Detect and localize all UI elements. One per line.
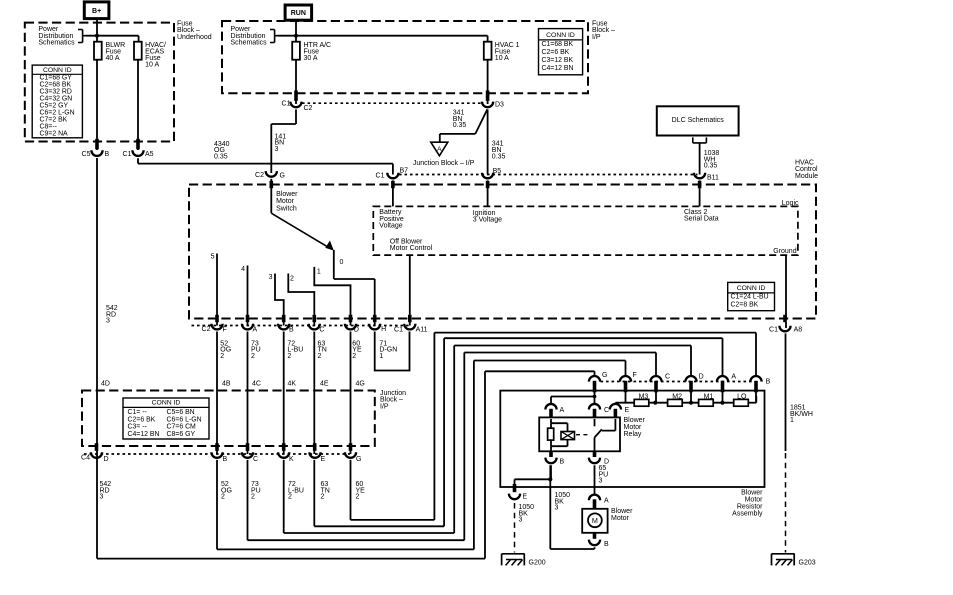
- svg-text:LO: LO: [737, 393, 747, 400]
- svg-text:A: A: [604, 498, 609, 505]
- svg-text:C2=6 BK: C2=6 BK: [542, 49, 570, 56]
- svg-text:D: D: [699, 373, 704, 380]
- svg-text:2: 2: [221, 494, 225, 501]
- svg-text:A: A: [437, 146, 442, 153]
- svg-text:C4: C4: [81, 455, 90, 462]
- svg-text:M2: M2: [672, 393, 682, 400]
- svg-text:3: 3: [100, 494, 104, 501]
- svg-text:G200: G200: [529, 559, 546, 566]
- svg-text:0.35: 0.35: [492, 153, 506, 160]
- svg-text:D3: D3: [495, 101, 504, 108]
- svg-text:A: A: [560, 407, 565, 414]
- svg-text:Ground: Ground: [773, 248, 796, 255]
- svg-text:C: C: [319, 327, 324, 334]
- svg-text:C2=68 BK: C2=68 BK: [40, 82, 72, 89]
- svg-text:0.35: 0.35: [704, 163, 718, 170]
- svg-text:2: 2: [318, 353, 322, 360]
- svg-text:A11: A11: [416, 326, 428, 333]
- svg-text:Junction Block – I/P: Junction Block – I/P: [413, 160, 475, 167]
- svg-text:Motor: Motor: [276, 198, 295, 205]
- svg-text:0.35: 0.35: [214, 153, 228, 160]
- svg-text:C1: C1: [282, 101, 291, 108]
- svg-text:4G: 4G: [356, 381, 365, 388]
- svg-text:3: 3: [106, 318, 110, 325]
- svg-text:C8=--: C8=--: [40, 124, 57, 131]
- svg-text:C1= --: C1= --: [128, 409, 147, 416]
- svg-text:C2: C2: [304, 105, 313, 112]
- svg-text:Blower: Blower: [611, 508, 633, 515]
- svg-text:C: C: [604, 407, 609, 414]
- svg-text:C3= --: C3= --: [128, 424, 147, 431]
- svg-text:Motor: Motor: [611, 515, 630, 522]
- svg-text:A8: A8: [794, 326, 803, 333]
- svg-text:0.35: 0.35: [453, 122, 467, 129]
- svg-text:1: 1: [790, 417, 794, 424]
- svg-text:Switch: Switch: [276, 206, 297, 213]
- svg-text:4C: 4C: [252, 381, 261, 388]
- svg-text:C1=68 GY: C1=68 GY: [40, 75, 73, 82]
- svg-text:K: K: [289, 456, 294, 463]
- svg-text:E: E: [523, 494, 528, 501]
- svg-text:A: A: [253, 327, 258, 334]
- svg-text:B: B: [766, 379, 771, 386]
- svg-text:G: G: [602, 372, 607, 379]
- svg-text:E: E: [625, 407, 630, 414]
- svg-text:D: D: [104, 456, 109, 463]
- svg-text:4K: 4K: [288, 381, 297, 388]
- svg-text:C: C: [253, 456, 258, 463]
- svg-text:B11: B11: [707, 175, 719, 182]
- svg-text:C5: C5: [82, 151, 91, 158]
- svg-text:C2=8 BK: C2=8 BK: [731, 301, 759, 308]
- svg-text:Relay: Relay: [624, 431, 642, 438]
- svg-text:G: G: [280, 173, 285, 180]
- svg-text:C1=24 L-BU: C1=24 L-BU: [731, 294, 769, 301]
- svg-text:2: 2: [251, 494, 255, 501]
- svg-text:M1: M1: [704, 393, 714, 400]
- svg-text:30 A: 30 A: [304, 55, 318, 62]
- svg-text:1: 1: [317, 268, 321, 275]
- svg-text:B5: B5: [493, 168, 502, 175]
- svg-text:Module: Module: [795, 173, 818, 180]
- svg-text:0: 0: [340, 259, 344, 266]
- svg-text:B: B: [560, 459, 565, 466]
- svg-text:3: 3: [599, 478, 603, 485]
- svg-text:Blower: Blower: [741, 490, 763, 497]
- svg-text:C6=6 L-GN: C6=6 L-GN: [167, 416, 202, 423]
- svg-text:3: 3: [269, 274, 273, 281]
- svg-text:Schematics: Schematics: [38, 39, 75, 46]
- svg-text:C6=2 L-GN: C6=2 L-GN: [40, 110, 75, 117]
- svg-text:10 A: 10 A: [145, 62, 159, 69]
- svg-text:Logic: Logic: [782, 200, 799, 207]
- svg-text:C1: C1: [123, 151, 132, 158]
- svg-text:A: A: [731, 373, 736, 380]
- svg-text:CONN ID: CONN ID: [737, 285, 766, 292]
- svg-text:Schematics: Schematics: [231, 39, 268, 46]
- svg-text:C4=32 GN: C4=32 GN: [40, 96, 73, 103]
- svg-text:10 A: 10 A: [495, 55, 509, 62]
- svg-text:RUN: RUN: [291, 10, 306, 17]
- svg-text:C8=6 GY: C8=6 GY: [167, 431, 196, 438]
- svg-text:B: B: [604, 541, 609, 548]
- svg-text:Motor: Motor: [624, 424, 643, 431]
- svg-text:B: B: [289, 327, 294, 334]
- svg-text:M3: M3: [639, 393, 649, 400]
- svg-text:A5: A5: [145, 151, 154, 158]
- svg-text:C5=2 GY: C5=2 GY: [40, 103, 69, 110]
- svg-text:C7=2 BK: C7=2 BK: [40, 117, 68, 124]
- svg-text:C5=6 BN: C5=6 BN: [167, 409, 195, 416]
- svg-text:Blower: Blower: [276, 191, 298, 198]
- svg-text:I/P: I/P: [592, 34, 601, 41]
- svg-text:E: E: [321, 456, 326, 463]
- svg-text:I/P: I/P: [380, 403, 389, 410]
- svg-text:C: C: [665, 373, 670, 380]
- svg-text:C3=12 BK: C3=12 BK: [542, 57, 574, 64]
- svg-text:C2=6 BK: C2=6 BK: [128, 416, 156, 423]
- svg-text:C9=2 NA: C9=2 NA: [40, 131, 69, 138]
- svg-text:G203: G203: [799, 559, 816, 566]
- svg-text:5: 5: [211, 254, 215, 261]
- svg-text:Underhood: Underhood: [177, 34, 212, 41]
- svg-text:C1: C1: [769, 326, 778, 333]
- svg-text:CONN ID: CONN ID: [43, 67, 72, 74]
- svg-text:2: 2: [356, 494, 360, 501]
- svg-text:Assembly: Assembly: [732, 511, 763, 518]
- svg-text:D: D: [354, 327, 359, 334]
- svg-text:3 Voltage: 3 Voltage: [473, 217, 502, 224]
- svg-text:4D: 4D: [101, 381, 110, 388]
- svg-text:M: M: [592, 516, 598, 525]
- svg-text:3: 3: [519, 517, 523, 524]
- svg-text:C4=12 BN: C4=12 BN: [128, 431, 160, 438]
- svg-text:4: 4: [241, 266, 245, 273]
- svg-text:Motor Control: Motor Control: [390, 245, 433, 252]
- svg-text:G: G: [356, 456, 361, 463]
- svg-text:CONN ID: CONN ID: [546, 32, 575, 39]
- svg-text:F: F: [223, 327, 227, 334]
- svg-text:2: 2: [288, 494, 292, 501]
- svg-text:3: 3: [555, 505, 559, 512]
- svg-text:CONN ID: CONN ID: [152, 400, 181, 407]
- svg-text:C1: C1: [394, 326, 403, 333]
- svg-text:F: F: [633, 372, 637, 379]
- svg-text:2: 2: [220, 353, 224, 360]
- svg-text:C2: C2: [202, 326, 211, 333]
- svg-text:4B: 4B: [222, 381, 231, 388]
- svg-text:C1=68 BK: C1=68 BK: [542, 41, 574, 48]
- svg-text:B+: B+: [92, 8, 101, 15]
- svg-text:1: 1: [379, 353, 383, 360]
- svg-text:C2: C2: [255, 172, 264, 179]
- svg-text:2: 2: [290, 276, 294, 283]
- svg-text:B: B: [223, 456, 228, 463]
- svg-text:2: 2: [321, 494, 325, 501]
- svg-text:Voltage: Voltage: [379, 222, 402, 229]
- svg-text:C3=32 RD: C3=32 RD: [40, 89, 72, 96]
- svg-text:B: B: [105, 151, 110, 158]
- svg-text:Blower: Blower: [624, 417, 646, 424]
- svg-text:Serial Data: Serial Data: [684, 215, 719, 222]
- svg-text:H: H: [381, 326, 386, 333]
- svg-text:Motor: Motor: [745, 497, 764, 504]
- svg-text:2: 2: [287, 353, 291, 360]
- svg-text:40 A: 40 A: [106, 55, 120, 62]
- svg-text:C1: C1: [376, 172, 385, 179]
- svg-text:2: 2: [251, 353, 255, 360]
- svg-text:DLC Schematics: DLC Schematics: [672, 117, 725, 124]
- svg-text:3: 3: [275, 146, 279, 153]
- svg-text:Resistor: Resistor: [737, 504, 763, 511]
- svg-text:4E: 4E: [320, 381, 329, 388]
- svg-text:2: 2: [352, 353, 356, 360]
- svg-text:B7: B7: [400, 167, 409, 174]
- svg-text:C4=12 BN: C4=12 BN: [542, 65, 574, 72]
- svg-text:C7=6 CM: C7=6 CM: [167, 424, 197, 431]
